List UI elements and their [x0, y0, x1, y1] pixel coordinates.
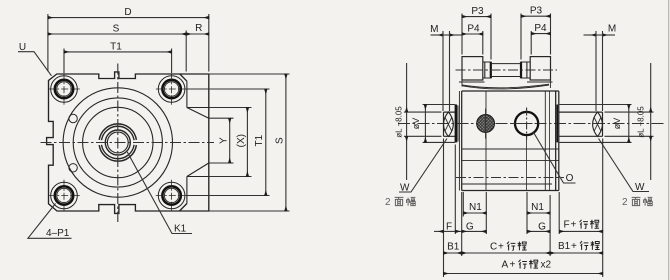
- C+行程: [490, 241, 504, 252]
- left rod: [444, 105, 459, 143]
- phi dims right: [560, 63, 654, 180]
- svg-text:2: 2: [385, 197, 391, 208]
- svg-text:P3: P3: [530, 6, 543, 17]
- body shoulder lines under port bosses: [459, 80, 553, 88]
- svg-text:O: O: [566, 173, 574, 184]
- 2 面幅 left: [385, 197, 391, 208]
- extension lines right: [209, 118, 234, 163]
- wavy break line: [462, 84, 549, 89]
- W leader left: [399, 139, 447, 193]
- svg-text:M: M: [430, 24, 438, 35]
- top strip axis: [456, 69, 558, 71]
- svg-text:øV: øV: [612, 118, 622, 130]
- svg-text:S: S: [274, 137, 285, 144]
- internal horizontals lower: [462, 148, 559, 150]
- svg-text:+: +: [571, 241, 577, 252]
- svg-text:N1: N1: [531, 202, 544, 213]
- left port box (bold inner side): [483, 62, 491, 78]
- M right dim: outside arrows: [596, 34, 603, 36]
- S dim (vertical): [285, 74, 287, 211]
- collar bold strip: [455, 105, 458, 143]
- rod axis dash-dot: [398, 123, 664, 125]
- O leader: [533, 132, 576, 184]
- svg-text:Y: Y: [218, 137, 229, 144]
- circle mid: [73, 98, 162, 187]
- A+行程x2: [502, 259, 516, 270]
- F+行程: [564, 220, 577, 231]
- P3/P4/M dimensions: [431, 14, 616, 112]
- extensions: [461, 14, 463, 55]
- top strip: port bosses partial view: [462, 57, 551, 80]
- (X) dim: [246, 108, 248, 177]
- extension verticals: [443, 139, 445, 278]
- circle inner: [83, 107, 153, 177]
- right rod: [557, 105, 602, 143]
- body outline with grooves and tabs: [47, 72, 209, 214]
- svg-text:(X): (X): [236, 134, 247, 147]
- B1+行程: [558, 241, 577, 252]
- F dim outside arrows: [444, 230, 456, 232]
- N1 dims: [463, 212, 486, 214]
- phi dims left: [404, 63, 455, 180]
- svg-text:x2: x2: [541, 259, 552, 270]
- bolt hole BR: [156, 180, 188, 212]
- D dim: [48, 17, 209, 19]
- S dim (horizontal): [48, 33, 186, 35]
- svg-text:øL −8.05: øL −8.05: [394, 106, 403, 138]
- left port hole (hatched): [477, 109, 495, 139]
- svg-text:T1: T1: [110, 41, 122, 52]
- right port box (bold inner side): [521, 62, 530, 78]
- T1 dim (horizontal): [64, 51, 172, 53]
- leader U: [18, 52, 52, 76]
- internal verticals: [485, 91, 487, 191]
- lens right: [593, 112, 603, 137]
- svg-text:+: +: [510, 259, 516, 270]
- tube silhouette between boxes: [491, 64, 521, 77]
- right view texts: [400, 6, 645, 253]
- G left dim: [462, 230, 487, 232]
- svg-text:K1: K1: [174, 224, 187, 235]
- left block: [462, 57, 483, 80]
- svg-text:N1: N1: [469, 202, 482, 213]
- 2 面幅 right: [622, 197, 628, 208]
- center crosshair dash-dot: [41, 64, 215, 223]
- square right edge segments: [186, 81, 188, 203]
- svg-text:P4: P4: [467, 24, 480, 35]
- svg-text:2: 2: [622, 197, 628, 208]
- F+stroke dim: [559, 230, 603, 232]
- rod circle: [105, 130, 130, 155]
- bolt axis dash-dot: [456, 177, 564, 179]
- bore circle large: [63, 88, 172, 197]
- svg-text:U: U: [19, 42, 26, 53]
- svg-text:C: C: [490, 241, 497, 252]
- svg-text:B1: B1: [447, 241, 460, 252]
- svg-text:S: S: [113, 24, 120, 35]
- svg-text:B1: B1: [558, 241, 571, 252]
- notch far edges: [187, 108, 209, 177]
- underlines for W / O labels: [399, 183, 649, 192]
- svg-text:D: D: [124, 7, 131, 18]
- P3 right dim: [521, 15, 551, 17]
- svg-text:M: M: [608, 24, 616, 35]
- right port hole (bold ring): [511, 108, 543, 140]
- svg-text:P4: P4: [534, 23, 547, 34]
- center circles: [63, 88, 172, 197]
- svg-text:+: +: [571, 220, 577, 231]
- svg-text:A: A: [502, 259, 509, 270]
- P4 left dim: [462, 33, 483, 35]
- svg-text:R: R: [195, 23, 202, 34]
- G right dim: [527, 230, 550, 232]
- bolt hole BL: [48, 180, 80, 212]
- rotated phi labels: [411, 118, 622, 130]
- A+stroke x2 dim: [444, 273, 603, 275]
- svg-text:øL −8.05: øL −8.05: [637, 106, 646, 138]
- svg-text:G: G: [466, 222, 474, 233]
- bolt hole TR: [156, 73, 188, 105]
- B1 dim: [444, 252, 462, 254]
- T1 dim (vertical): [265, 89, 267, 196]
- svg-text:F: F: [564, 220, 570, 231]
- svg-text:F: F: [446, 222, 452, 233]
- lens (wrench flats): [444, 112, 454, 137]
- collar ring (retaining ring with gaps): [99, 124, 136, 140]
- right side tab with notch: [187, 81, 209, 203]
- right block: [530, 57, 550, 80]
- Y dim: [229, 118, 231, 163]
- face double lines: [458, 91, 460, 191]
- B1+stroke dim: [550, 252, 603, 254]
- W leader right: [599, 139, 650, 192]
- left view texts: [19, 7, 285, 239]
- svg-text:G: G: [538, 222, 546, 233]
- P4 right dim: [531, 33, 550, 35]
- corner chamfers top-right / bottom-right: [180, 74, 187, 211]
- svg-text:T1: T1: [254, 134, 265, 146]
- pin holes left side: [69, 114, 77, 172]
- svg-text:øV: øV: [411, 118, 421, 130]
- scan edge artifact right: [668, 0, 670, 280]
- svg-text:4–P1: 4–P1: [46, 228, 70, 239]
- C+stroke dim: [462, 252, 550, 254]
- collar bold strip right: [556, 105, 558, 143]
- main body rectangle: [459, 91, 558, 191]
- svg-text:+: +: [498, 241, 504, 252]
- M left dim: outside arrows: [443, 34, 450, 36]
- R dim: [186, 33, 209, 35]
- leader K1: [127, 152, 192, 234]
- bolt hole TL: [48, 73, 80, 105]
- svg-text:P3: P3: [471, 6, 484, 17]
- extension lines top: [47, 14, 49, 72]
- P3 left dim: [462, 16, 491, 18]
- notch diagonals: [187, 108, 209, 177]
- leader 4-P1: [28, 204, 72, 239]
